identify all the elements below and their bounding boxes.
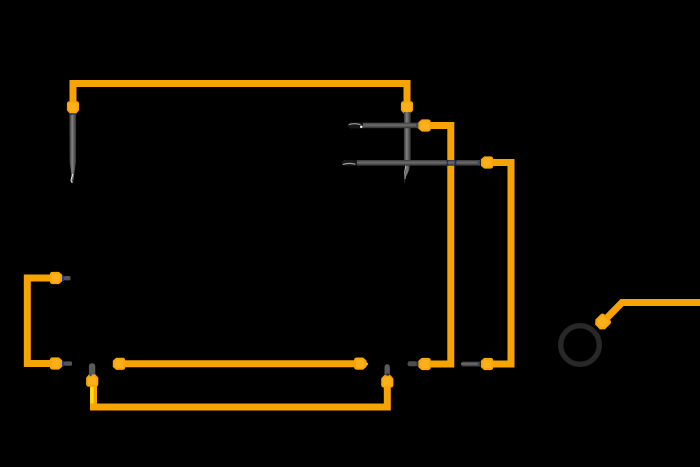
pin stub at W2 bottom	[408, 361, 418, 366]
transistor Q1 lower leg (horizontal)	[341, 160, 480, 166]
crossing marks where Q1 lower leg passes over W2	[447, 160, 449, 166]
connector cap W1 left (points down)	[67, 101, 79, 113]
pin stub right of W6 bottom cap	[64, 361, 72, 365]
wire W7 to ring terminal	[601, 303, 700, 325]
connector cap W4 left (points left)	[113, 358, 125, 370]
connector cap W3 top (points left)	[481, 156, 493, 168]
wire W3 (lower leg to bottom pin)	[490, 163, 511, 365]
connector cap W1 right (points down)	[401, 101, 413, 113]
connector cap W2 bottom (points left)	[418, 358, 430, 370]
connector cap W5 left (points up)	[86, 374, 98, 386]
connector cap W7 (points down-left)	[593, 312, 612, 331]
blue contact at W6 bottom tip	[62, 361, 64, 366]
wire W1 top horizontal run	[73, 84, 407, 108]
transistor Q1 upper leg (horizontal)	[347, 123, 418, 129]
connector cap W4 right (points right)	[354, 358, 366, 370]
transistor Q1 vertical lead	[404, 112, 411, 184]
ring terminal lug	[561, 326, 600, 365]
connector cap W2 top (points left)	[418, 119, 430, 131]
pin stub above W5 right cap	[385, 364, 390, 375]
wire W5 bottom U-shape	[94, 377, 388, 407]
wire W4 long bottom horizontal	[117, 360, 361, 367]
pin stub above W5 left cap	[89, 363, 95, 376]
connector cap W6 top (points right)	[50, 272, 62, 284]
connector cap W3 bottom (points left)	[481, 358, 493, 370]
pin P1 left component lead	[69, 113, 76, 183]
pin stub at W3 bottom	[461, 362, 480, 367]
yellow contact sliver at W4 right tip	[366, 361, 369, 367]
wire W6 left U-shape	[27, 278, 56, 364]
yellow wire highlight on W5 left vertical	[90, 376, 93, 404]
wire W2 (upper leg to bottom pin)	[424, 126, 451, 365]
pin stub right of W6 top cap	[64, 276, 71, 280]
blue contact at W6 top tip	[62, 276, 64, 281]
connector cap W5 right (points up)	[381, 375, 393, 387]
connector cap W6 bottom (points right)	[50, 357, 62, 369]
